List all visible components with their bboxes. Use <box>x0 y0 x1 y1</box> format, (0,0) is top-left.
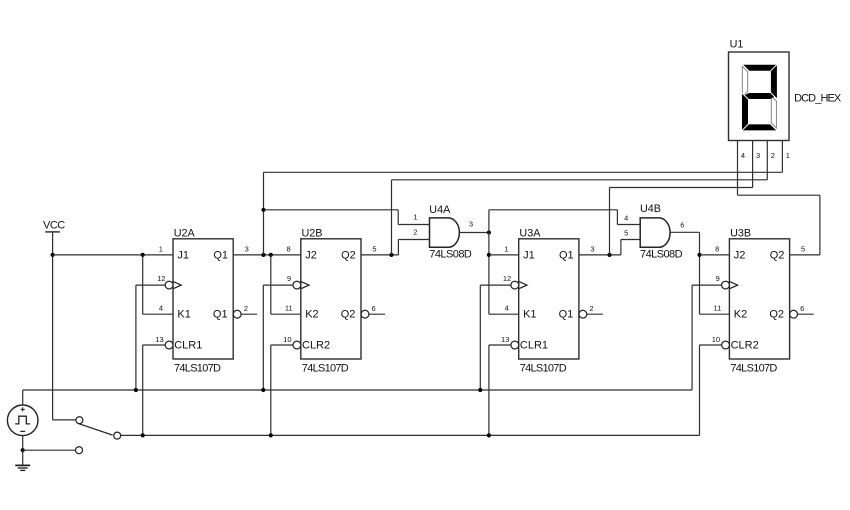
svg-text:Q1: Q1 <box>213 249 228 261</box>
flip-flop U2A 74LS107D <box>165 227 241 374</box>
svg-text:11: 11 <box>285 304 293 313</box>
junction U4A output at J1 row <box>487 253 491 257</box>
U2B Q-bar stub pin 6 <box>369 304 385 314</box>
svg-text:3: 3 <box>245 245 249 254</box>
wire clock bus <box>23 389 692 391</box>
svg-text:74LS107D: 74LS107D <box>730 362 777 374</box>
flip-flop U2B 74LS107D <box>293 227 369 374</box>
svg-text:CLR1: CLR1 <box>174 339 202 351</box>
svg-text:J1: J1 <box>523 249 535 261</box>
power VCC <box>43 219 65 232</box>
svg-text:VCC: VCC <box>43 219 65 231</box>
junction J1-K1 tie U2A <box>141 253 145 257</box>
wire bus B (bit B to display pin 2) <box>392 179 768 181</box>
wire CLR2 U3B <box>700 344 722 346</box>
wire clock input U2B <box>263 284 293 286</box>
junction bit-A to AND link <box>261 208 265 212</box>
wire clock input U3A <box>480 284 511 286</box>
svg-text:Q2: Q2 <box>341 309 356 321</box>
svg-text:U1: U1 <box>730 39 744 51</box>
U3A Q-bar stub pin 2 <box>587 304 603 314</box>
flip-flop U3A 74LS107D <box>511 227 587 374</box>
svg-text:6: 6 <box>372 304 376 313</box>
svg-text:1: 1 <box>504 245 508 254</box>
U4B pin 4 wire <box>617 213 640 224</box>
svg-text:3: 3 <box>756 151 760 160</box>
svg-text:8: 8 <box>287 245 291 254</box>
svg-text:4: 4 <box>741 151 745 160</box>
seven-segment display U1 DCD_HEX <box>729 39 842 141</box>
svg-text:1: 1 <box>159 245 163 254</box>
svg-text:9: 9 <box>716 274 720 283</box>
flip-flop U3B 74LS107D <box>722 227 798 374</box>
svg-text:6: 6 <box>800 304 804 313</box>
display U1 pin 3 wire <box>753 141 761 188</box>
svg-text:12: 12 <box>157 274 165 283</box>
svg-text:J2: J2 <box>734 249 746 261</box>
junction Q1A tap to bus A <box>261 253 265 257</box>
clock source V1 <box>7 405 38 436</box>
svg-text:U4B: U4B <box>640 203 661 215</box>
wire bus C (bit C to display pin 3) <box>610 187 753 189</box>
svg-text:DCD_HEX: DCD_HEX <box>794 92 842 104</box>
wire to lower switch throw <box>23 449 76 451</box>
U4A pin 1 wire <box>398 213 429 225</box>
junction clock bus U2B <box>261 388 265 392</box>
wire bus A (bit A to display pin 1) <box>264 171 783 173</box>
switch S1 <box>76 417 121 454</box>
wire clock source bottom <box>22 436 24 451</box>
ground <box>15 465 30 470</box>
svg-text:Q2: Q2 <box>341 249 356 261</box>
junction Q1C tap to bus C <box>607 253 611 257</box>
wire CLR2 U2B <box>271 344 293 346</box>
wire bit-A vertical <box>263 172 265 255</box>
wire J1 U3A <box>489 254 519 256</box>
wire K2 U2B <box>271 313 301 315</box>
svg-text:74LS08D: 74LS08D <box>429 249 472 261</box>
U2A Q-bar stub pin 2 <box>241 304 257 314</box>
svg-text:4: 4 <box>624 213 628 222</box>
svg-text:Q2: Q2 <box>769 309 784 321</box>
svg-text:74LS08D: 74LS08D <box>640 249 683 261</box>
svg-text:1: 1 <box>413 213 417 222</box>
wire K2 U3B <box>700 313 730 315</box>
svg-text:U3A: U3A <box>519 227 541 239</box>
junction U4A output tee <box>487 230 491 234</box>
svg-text:2: 2 <box>413 228 417 237</box>
svg-text:Q2: Q2 <box>770 249 785 261</box>
wire clock input U2A <box>136 284 165 286</box>
wire VCC to J1 U2A <box>53 254 173 256</box>
svg-text:12: 12 <box>503 274 511 283</box>
junction U4B output at J2 row <box>697 253 701 257</box>
svg-text:CLR1: CLR1 <box>520 339 548 351</box>
svg-text:2: 2 <box>771 151 775 160</box>
svg-text:8: 8 <box>715 245 719 254</box>
wire ground stem <box>22 450 24 465</box>
svg-text:U2A: U2A <box>174 227 196 239</box>
wire Q1 U3A output <box>579 254 621 256</box>
junction VCC-J1 <box>51 253 55 257</box>
svg-text:4: 4 <box>159 304 163 313</box>
svg-text:K1: K1 <box>177 309 190 321</box>
svg-text:K1: K1 <box>523 309 536 321</box>
junction clear bus U2A <box>141 433 145 437</box>
wire bit-C vertical <box>609 188 611 255</box>
junction Q2B tap to bus B <box>389 253 393 257</box>
wire Q2 U3B output (bit D) <box>790 254 820 256</box>
wire link bit A to U4A pin 1 <box>264 209 399 211</box>
wire clear bus (switch common) <box>121 434 700 436</box>
wire K2 tie vertical U2B <box>270 255 272 314</box>
wire K1 tie vertical U2A <box>142 255 144 314</box>
junction source-ground-switch <box>21 448 25 452</box>
display U1 pin 4 wire <box>738 141 746 196</box>
wire U4B output to J2/K2 U3B <box>699 232 701 314</box>
display U1 pin 2 wire <box>767 141 775 180</box>
svg-text:11: 11 <box>714 304 722 313</box>
svg-text:2: 2 <box>589 304 593 313</box>
svg-text:13: 13 <box>155 335 163 344</box>
svg-text:10: 10 <box>283 335 291 344</box>
svg-text:74LS107D: 74LS107D <box>174 362 221 374</box>
U3B Q-bar stub pin 6 <box>798 304 814 314</box>
svg-text:U3B: U3B <box>730 227 751 239</box>
svg-text:74LS107D: 74LS107D <box>302 362 349 374</box>
wire CLR1 U2A <box>143 344 166 346</box>
junction J2-K2 tie U2B <box>269 253 273 257</box>
wire clock input U3B <box>692 284 722 286</box>
display U1 pin 1 wire <box>782 141 790 173</box>
svg-text:5: 5 <box>801 245 805 254</box>
wire CLR1 U3A <box>489 344 511 346</box>
wire K1 U3A <box>489 313 519 315</box>
wire Q1 U2A to J2 U2B <box>233 254 301 256</box>
svg-text:Q1: Q1 <box>559 249 574 261</box>
junction clear bus U2B <box>269 433 273 437</box>
svg-text:Q1: Q1 <box>213 309 228 321</box>
junction clock bus U2A <box>134 388 138 392</box>
wire J2 U3B <box>700 254 730 256</box>
svg-text:1: 1 <box>786 151 790 160</box>
U4A pin 2 wire <box>398 228 429 240</box>
U4A pin 3 output wire <box>459 220 489 233</box>
junction clear bus U3A <box>487 433 491 437</box>
svg-text:CLR2: CLR2 <box>731 339 759 351</box>
svg-text:10: 10 <box>712 335 720 344</box>
wire link U4A output to U4B pin 4 <box>489 209 618 211</box>
svg-text:K2: K2 <box>734 309 747 321</box>
wire VCC vertical drop <box>52 232 54 420</box>
svg-text:4: 4 <box>505 304 509 313</box>
wire U4A output to J1/K1 U3A <box>488 210 490 314</box>
wire VCC to upper switch throw <box>53 419 77 421</box>
svg-text:J2: J2 <box>305 249 317 261</box>
svg-text:U2B: U2B <box>302 227 323 239</box>
svg-text:3: 3 <box>590 245 594 254</box>
AND gate U4A 74LS08D <box>429 204 472 260</box>
wire clock source top to clock bus <box>22 390 24 405</box>
svg-text:Q1: Q1 <box>559 309 574 321</box>
wire K1 U2A <box>143 313 173 315</box>
svg-text:5: 5 <box>624 229 628 238</box>
svg-text:9: 9 <box>287 274 291 283</box>
svg-text:K2: K2 <box>305 309 318 321</box>
AND gate U4B 74LS08D <box>640 203 683 261</box>
wire Q2 U2B output <box>361 254 398 256</box>
svg-text:2: 2 <box>244 304 248 313</box>
svg-text:5: 5 <box>372 245 376 254</box>
svg-text:13: 13 <box>501 335 509 344</box>
U4B pin 5 wire <box>621 229 640 240</box>
svg-text:J1: J1 <box>177 249 189 261</box>
svg-text:U4A: U4A <box>429 204 451 216</box>
svg-text:74LS107D: 74LS107D <box>520 362 567 374</box>
svg-text:6: 6 <box>680 221 684 230</box>
svg-text:CLR2: CLR2 <box>302 339 330 351</box>
junction clock bus U3A <box>478 388 482 392</box>
U4B pin 6 output wire <box>670 221 700 233</box>
wire bit-B vertical <box>391 180 393 255</box>
svg-text:3: 3 <box>469 220 473 229</box>
wire bus D (bit D to display pin 4) <box>738 194 820 196</box>
